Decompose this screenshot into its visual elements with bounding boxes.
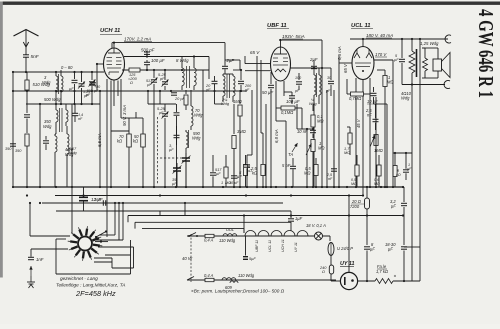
capacitor 400pF	[90, 83, 96, 85]
capacitor left of IF2	[215, 96, 224, 104]
svg-text:µF: µF	[388, 247, 393, 252]
svg-text:1nF: 1nF	[36, 257, 44, 262]
svg-text:40 W: 40 W	[182, 256, 193, 261]
svg-text:350: 350	[15, 148, 22, 153]
coil 590 Wdg	[186, 130, 189, 187]
transformer secondary	[422, 48, 438, 78]
svg-text:350: 350	[5, 146, 12, 151]
wire trimmer row top	[62, 71, 104, 73]
capacitor 20pF osc	[212, 76, 218, 96]
wire node down left	[12, 72, 14, 187]
wire switch left row1	[30, 203, 70, 236]
capacitor 10nF ucl	[371, 87, 377, 104]
svg-text:pF: pF	[205, 87, 211, 92]
capacitor 1uF heater	[288, 211, 294, 231]
svg-text:Ω: Ω	[322, 269, 325, 274]
svg-text:nF: nF	[328, 177, 333, 181]
svg-text:100 µF: 100 µF	[286, 99, 300, 104]
svg-text:1: 1	[221, 180, 223, 185]
capacitor 500pF	[144, 51, 150, 57]
wire UCH left pin	[96, 63, 104, 65]
svg-text:170V. 2,2 mA: 170V. 2,2 mA	[124, 37, 151, 42]
resistor 510 Wdg	[25, 72, 29, 113]
capacitor 1nF series	[103, 200, 105, 206]
svg-text:µF: µF	[147, 83, 152, 87]
tube UCH11 envelope	[104, 48, 125, 80]
mains plug UY11	[340, 194, 357, 289]
wire plate line y70	[122, 69, 209, 71]
switch contact arm left	[95, 230, 107, 238]
svg-text:6,5 mA: 6,5 mA	[97, 133, 102, 147]
svg-text:nF: nF	[367, 113, 372, 118]
svg-text:Ω: Ω	[130, 80, 133, 85]
wire UCH cathode down	[99, 90, 101, 187]
speaker	[433, 48, 450, 78]
svg-text:×Bc: perm. Lautsprecher;Drosse: ×Bc: perm. Lautsprecher;Drossel 100– 500…	[191, 289, 285, 294]
fuse 0.4A bottom	[205, 278, 214, 281]
svg-text:5nF: 5nF	[31, 54, 40, 60]
wire UCH pin4 down	[114, 79, 121, 106]
capacitor 5uF output	[399, 39, 405, 85]
wire switch right links	[93, 203, 134, 274]
capacitor 10nF	[310, 130, 316, 138]
resistor right of coil	[184, 90, 188, 110]
variable capacitor gang 2	[173, 163, 182, 187]
transformer core	[416, 49, 418, 77]
wire v393 down	[392, 87, 394, 187]
resistor 125 ohm	[129, 68, 140, 72]
wire v420	[419, 39, 421, 281]
resistor 0.1M vert	[311, 104, 315, 129]
wire UCH anode top	[113, 42, 115, 49]
svg-text:U 24/0 P: U 24/0 P	[337, 246, 353, 251]
svg-text:0,4 A: 0,4 A	[204, 273, 214, 278]
tube UBF11 electrodes	[273, 48, 288, 73]
svg-text:8 Wdg: 8 Wdg	[176, 58, 189, 63]
wire trimmer bottom row	[72, 103, 100, 105]
wire UBF right to 2uF	[291, 67, 324, 69]
svg-text:1,25 Wdg: 1,25 Wdg	[420, 41, 439, 46]
svg-text:×: ×	[394, 274, 397, 280]
capacitor 2.5nF ucl	[373, 104, 379, 130]
wire UCL pins down	[356, 78, 370, 196]
svg-text:µF: µF	[394, 57, 399, 62]
connector curl bottom right	[444, 81, 450, 89]
trimmer 5-25 pF left	[78, 72, 85, 104]
resistor 0.5M row	[355, 155, 359, 187]
svg-text:pF: pF	[85, 93, 91, 97]
svg-text:pF: pF	[325, 89, 331, 93]
wire 243	[233, 69, 242, 71]
capacitor 50uF	[268, 72, 274, 187]
wire 72 column	[71, 104, 73, 227]
wire 111 bottom	[111, 131, 129, 187]
coil 3 Wdg antenna transformer	[56, 70, 63, 104]
svg-text:kΩ: kΩ	[396, 173, 401, 177]
trimmer +40 pF	[89, 72, 96, 104]
resistor 5k low	[243, 155, 247, 187]
capacitor 2.5nF row	[331, 160, 337, 187]
IF transformer 2	[223, 74, 235, 102]
capacitor 20pF below	[171, 93, 177, 95]
resistor 0.7M	[347, 79, 370, 96]
tube UBF11 envelope	[271, 47, 291, 81]
capacitor 100uF	[144, 60, 150, 70]
wire grid left column	[97, 60, 240, 91]
svg-text:0,4 A: 0,4 A	[204, 238, 214, 243]
svg-text:1MΩ: 1MΩ	[233, 99, 242, 104]
wire UBF anode top	[279, 39, 281, 47]
wire 500pF line y56	[124, 55, 209, 57]
wire v334	[333, 90, 335, 187]
svg-text:MΩ: MΩ	[374, 182, 380, 186]
svg-text:kΩ: kΩ	[133, 139, 138, 144]
wire v257	[256, 56, 258, 187]
resistor 240ohm	[329, 262, 340, 281]
heater chain arcs	[245, 231, 308, 237]
svg-text:90 V. 3 mA: 90 V. 3 mA	[122, 105, 127, 126]
svg-text:3MΩ: 3MΩ	[237, 129, 246, 134]
svg-text:18 V. 0,1 A: 18 V. 0,1 A	[306, 223, 326, 228]
resistor 70k	[127, 118, 132, 187]
capacitor 5uF low	[244, 155, 250, 187]
svg-text:UCH 11: UCH 11	[281, 239, 285, 252]
wire 40 down	[39, 104, 41, 187]
lamp 18V	[315, 232, 323, 240]
svg-text:gezeichnet · Lang: gezeichnet · Lang	[60, 276, 98, 282]
svg-text:µF: µF	[407, 167, 412, 171]
tube UCL11 envelope	[352, 47, 374, 80]
svg-text:Teilentlöge : Lang,Mittel,Kurz: Teilentlöge : Lang,Mittel,Kurz, TA	[56, 283, 125, 289]
svg-text:pF: pF	[158, 110, 164, 115]
wire UCL right 170V	[374, 60, 393, 87]
svg-text:2µF: 2µF	[309, 57, 318, 62]
capacitor 2uF right	[311, 60, 317, 69]
resistor 20ohm 7200	[365, 187, 370, 216]
capacitor 8uF	[364, 216, 370, 283]
svg-text:Wdg: Wdg	[192, 136, 201, 141]
svg-text:6,8 mA: 6,8 mA	[274, 129, 279, 143]
svg-text:UCL 11: UCL 11	[268, 240, 272, 252]
svg-text:kΩ: kΩ	[117, 139, 122, 144]
svg-text:0,5 mA: 0,5 mA	[337, 46, 342, 60]
svg-text:kΩ: kΩ	[252, 171, 257, 176]
capacitor 1uF row	[403, 153, 409, 180]
wire 160 down	[148, 90, 176, 104]
dashed gang link vertical	[157, 117, 159, 185]
mains line y280	[187, 279, 336, 281]
capacitor 3uF gang	[174, 126, 180, 145]
svg-text:45 V: 45 V	[356, 118, 361, 128]
capacitor 18-30uF	[401, 216, 420, 282]
capacitor 27 column	[24, 115, 30, 133]
resistor 1M ucl	[377, 70, 387, 187]
svg-text:UY 11: UY 11	[340, 261, 354, 267]
svg-text:500 Wdg: 500 Wdg	[44, 97, 61, 102]
svg-text:2F=458 kHz: 2F=458 kHz	[75, 289, 116, 298]
svg-text:110 Wdg: 110 Wdg	[238, 273, 255, 278]
wire bus y195	[26, 194, 364, 196]
svg-text:OOL: OOL	[226, 227, 234, 232]
tube UCH11 electrodes	[107, 49, 122, 76]
capacitor mid left	[43, 136, 49, 150]
svg-text:Wdg: Wdg	[65, 152, 74, 157]
resistor 2.5	[261, 133, 265, 187]
svg-text:MΩ: MΩ	[317, 119, 324, 124]
wire y216	[128, 214, 404, 222]
svg-text:100 µF: 100 µF	[151, 58, 165, 63]
svg-text:193V· 5mA: 193V· 5mA	[282, 34, 305, 39]
capacitor 100pF	[296, 73, 302, 90]
wire 170V line	[112, 43, 225, 60]
resistor 1M vert	[238, 90, 242, 187]
svg-text:100: 100	[295, 76, 301, 80]
label UCH11 underline	[100, 34, 122, 36]
resistor 1.7M ucl	[347, 127, 352, 155]
mains line y236	[187, 235, 330, 237]
capacitor mid cluster	[174, 104, 180, 187]
antenna	[14, 30, 39, 37]
svg-text:µF: µF	[69, 86, 74, 91]
svg-text:µF: µF	[169, 147, 174, 152]
wire output bottom	[402, 83, 445, 85]
wire v330	[329, 236, 331, 241]
coil 70 Wdg	[191, 90, 193, 130]
wire switch feeds	[72, 187, 185, 240]
wire 129 143 tops	[129, 112, 143, 118]
wire bus y203	[29, 202, 283, 204]
svg-text:65 V: 65 V	[250, 50, 260, 55]
capacitor 2uF	[222, 60, 228, 74]
svg-text:MΩ: MΩ	[344, 150, 350, 155]
svg-text:110 Wdg: 110 Wdg	[219, 238, 236, 243]
svg-text:1µF: 1µF	[295, 216, 303, 221]
svg-text:170 V: 170 V	[375, 52, 387, 57]
capacitor right of IF2 200pF	[238, 70, 244, 91]
TA input arrow	[292, 143, 298, 152]
wire v121	[121, 90, 129, 118]
svg-text:UY 11: UY 11	[294, 242, 298, 252]
svg-text:MΩ: MΩ	[351, 182, 357, 186]
svg-text:0,1MΩ: 0,1MΩ	[281, 110, 293, 115]
trimmer 5-25 pF mid	[162, 70, 169, 90]
svg-text:nF: nF	[78, 117, 83, 121]
wire v209	[208, 57, 210, 80]
coil 417 Wdg right	[67, 126, 69, 187]
svg-text:pF: pF	[294, 89, 300, 93]
svg-text:Wdg: Wdg	[42, 80, 51, 85]
svg-text:65 V: 65 V	[343, 63, 348, 73]
potentiometer 1M tone	[370, 135, 378, 188]
resistor lower left	[25, 134, 29, 187]
capacitor 12uF	[79, 187, 88, 211]
wire row links	[393, 85, 412, 282]
svg-text:Wdg: Wdg	[43, 124, 52, 129]
resistor 0.5M	[314, 158, 318, 187]
capacitor 1nF switch	[28, 249, 34, 260]
choke 110Wdg bottom	[222, 278, 238, 283]
resistor 3M	[232, 104, 236, 187]
tube UCL11 electrodes	[354, 50, 372, 73]
svg-text:50 µF: 50 µF	[262, 90, 273, 95]
potentiometer 1M volume	[306, 140, 315, 188]
svg-text:2µF: 2µF	[226, 58, 235, 63]
capacitor 30pF	[328, 68, 334, 90]
transformer primary zigzag	[409, 39, 415, 85]
fuse 0.4A top	[205, 234, 214, 237]
svg-text:12 µF: 12 µF	[91, 197, 103, 202]
svg-text:4 GW 646 R 1: 4 GW 646 R 1	[474, 9, 498, 98]
svg-text:MΩ: MΩ	[387, 80, 394, 85]
coil 350 Wdg	[56, 104, 62, 134]
border top bar	[2, 2, 500, 5]
svg-text:pF: pF	[244, 88, 250, 92]
svg-text:180 V. 40 mA: 180 V. 40 mA	[366, 33, 393, 38]
wire UBF pins down	[276, 81, 284, 121]
wire UBF left pins	[245, 56, 271, 71]
wire 154 down	[153, 90, 155, 187]
wire v387	[374, 104, 388, 187]
wire 331 down	[330, 90, 332, 96]
svg-text:µF: µF	[234, 181, 239, 185]
wire UCH pin2 down	[106, 79, 108, 187]
wire v266	[265, 104, 267, 187]
wire bias bus y91	[12, 90, 247, 92]
capacitor row1	[72, 72, 78, 104]
wire staircase y222	[135, 222, 291, 228]
wire bus y187	[12, 186, 404, 188]
capacitor 5nF ta	[290, 158, 296, 187]
capacitor 517uF low	[210, 155, 216, 187]
border left strip	[0, 2, 3, 278]
resistor 0.6M row	[377, 155, 381, 187]
wire UCL top	[362, 38, 364, 47]
dashed gang link horizontal	[160, 157, 182, 159]
choke 110Wdg top	[223, 234, 237, 236]
wire switch left row2	[31, 248, 68, 250]
capacitor 140pF	[72, 104, 78, 122]
trimmer 517	[151, 70, 158, 90]
svg-text:0,7MΩ: 0,7MΩ	[349, 96, 361, 101]
wire v286	[276, 121, 286, 187]
resistor 500k	[141, 118, 146, 187]
resistor 1M low	[224, 155, 228, 187]
resistor 0.1M horizontal	[276, 106, 302, 110]
svg-text:1,7 kΩ: 1,7 kΩ	[376, 269, 388, 274]
wire UCH pin3 down	[110, 81, 112, 132]
trimmer 5-25 pF low	[162, 104, 169, 187]
wire bus y211	[56, 210, 291, 212]
capacitor 5uF heater	[243, 236, 248, 259]
svg-text:µF: µF	[216, 171, 221, 176]
wire 193V line	[279, 40, 322, 64]
svg-text:5µF: 5µF	[249, 256, 256, 261]
svg-text:Wdg: Wdg	[401, 96, 410, 101]
wire v203	[202, 70, 204, 187]
svg-text:Wdg: Wdg	[194, 113, 203, 118]
svg-text:UBF 11: UBF 11	[255, 240, 259, 252]
svg-text:µF: µF	[172, 181, 177, 186]
svg-text:7200: 7200	[350, 204, 360, 209]
wire 180V line	[350, 38, 448, 40]
switch contact row2	[95, 241, 108, 243]
wire switch box	[56, 239, 134, 274]
svg-text:MΩ: MΩ	[318, 146, 325, 151]
connector curl top right	[445, 35, 451, 43]
svg-text:1MΩ: 1MΩ	[374, 148, 383, 153]
wire staircase y228	[142, 229, 244, 233]
coil 410 Wdg	[55, 134, 57, 187]
svg-text:µF: µF	[237, 174, 242, 179]
coil secondary right	[66, 104, 68, 126]
svg-text:pF: pF	[159, 76, 165, 81]
svg-text:UBF 11: UBF 11	[267, 23, 287, 29]
svg-text:Wdg: Wdg	[221, 101, 230, 106]
wire v327	[326, 90, 328, 187]
svg-text:UCH 11: UCH 11	[100, 28, 120, 34]
capacitor on left column	[10, 144, 16, 146]
wire UCL left pin	[339, 56, 352, 187]
wire v297	[297, 104, 302, 129]
svg-text:500 pF: 500 pF	[141, 48, 155, 53]
wire v376	[375, 97, 377, 187]
wire v307	[302, 128, 314, 187]
fuse resistor 1.2k	[358, 279, 420, 284]
svg-text:0 – 80: 0 – 80	[61, 65, 73, 70]
capacitor 100uF ubf	[284, 92, 295, 104]
wire v322 low	[321, 64, 323, 187]
svg-text:30: 30	[327, 76, 331, 80]
variable capacitor gang 1	[182, 153, 191, 187]
resistor 8k row	[393, 153, 397, 187]
wire 331	[322, 67, 331, 69]
wire v252	[247, 90, 252, 155]
wire antenna junction row	[12, 71, 62, 73]
capacitor 10uF low	[231, 160, 237, 187]
svg-text:10: 10	[229, 181, 233, 185]
wire v261	[261, 60, 263, 133]
svg-text:µF: µF	[391, 204, 396, 209]
switch contact mains	[188, 233, 198, 238]
band switch rotary	[68, 226, 103, 261]
wire v244	[243, 216, 245, 234]
IF transformer 3	[314, 68, 321, 187]
svg-text:µF: µF	[370, 247, 375, 252]
svg-text:UCL 11: UCL 11	[351, 23, 371, 29]
capacitor 3.2uF	[401, 187, 407, 216]
scale lamp U2410P	[328, 243, 334, 263]
capacitor 5nF antenna	[23, 53, 29, 72]
svg-text:TA: TA	[288, 152, 293, 157]
wire switch box2	[94, 258, 112, 262]
ground arrow	[27, 266, 35, 288]
wire left bus y104	[26, 103, 72, 105]
mains switch dashed	[187, 234, 194, 282]
IF transformer 1 8 Wdg	[182, 57, 196, 91]
